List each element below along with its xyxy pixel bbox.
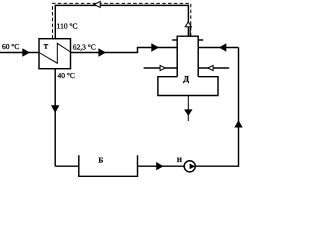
svg-text:40 °C: 40 °C	[58, 71, 75, 80]
svg-text:110 °C: 110 °C	[57, 22, 78, 31]
svg-text:Д: Д	[183, 75, 189, 84]
svg-text:62,3 °C: 62,3 °C	[73, 43, 96, 52]
svg-text:60 °C: 60 °C	[2, 42, 19, 51]
svg-text:Н: Н	[177, 157, 182, 164]
svg-text:Б: Б	[98, 156, 103, 165]
svg-text:Т: Т	[44, 43, 49, 50]
